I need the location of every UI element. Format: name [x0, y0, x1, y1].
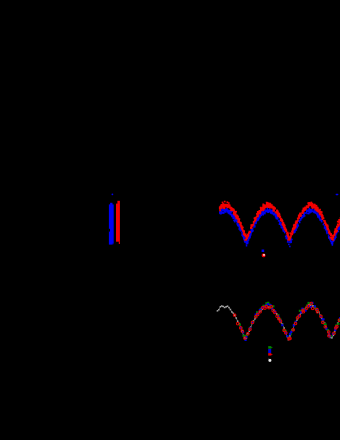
top fringe panel: red dataset scatter: [219, 201, 340, 241]
bottom fringe panel legend: green square marker: [268, 346, 273, 349]
top fringe panel legend: red open-circle marker (white face): [262, 254, 266, 258]
top fringe panel: blue dataset scatter: [219, 206, 340, 247]
bottom fringe panel legend: red marker: [268, 353, 273, 356]
left spectrum panel: blue narrow peak (dense vertical bar): [109, 203, 114, 245]
top fringe panel: blue legend dash at right edge: [336, 194, 339, 196]
bottom fringe panel: red dataset (open circle markers): [233, 302, 340, 340]
left spectrum panel: red narrow peak (dense vertical bar): [116, 201, 120, 244]
bottom fringe panel: gray dataset (asterisk marker trace): [217, 303, 340, 341]
bottom fringe panel legend: white star marker: [268, 359, 271, 362]
top fringe panel legend: blue square marker: [262, 250, 265, 253]
bottom fringe panel: blue dataset (square markers): [240, 302, 340, 341]
left spectrum panel: blue peak outlier dot: [112, 194, 114, 196]
bottom fringe panel: green dataset (square markers): [239, 302, 340, 339]
bottom fringe panel legend: blue square marker: [268, 349, 271, 353]
